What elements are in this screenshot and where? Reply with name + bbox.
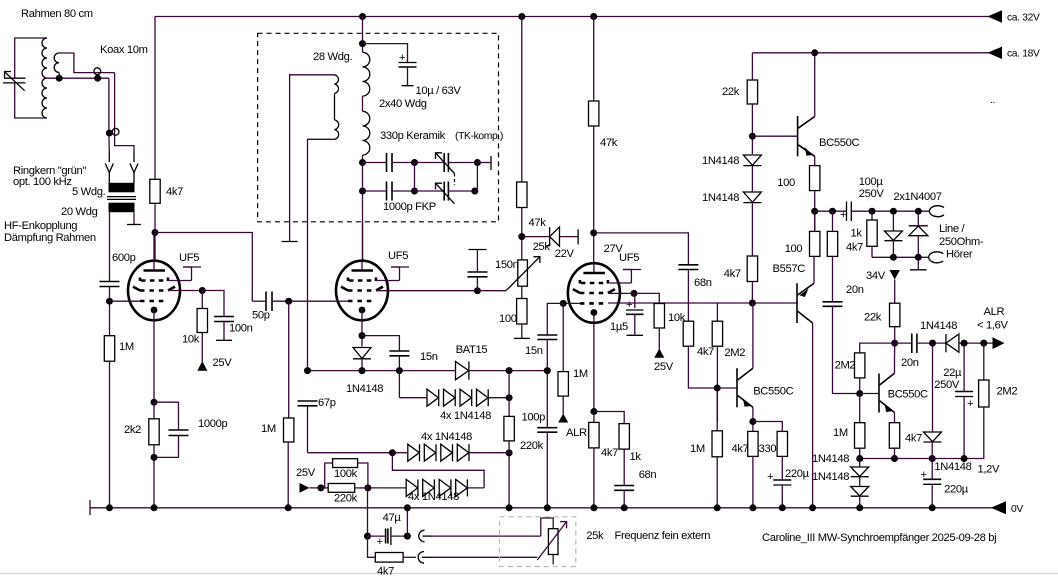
wire 47k anode tube3 [593,17,595,102]
node cathode tube3 [590,408,597,415]
svg-text:1,2V: 1,2V [978,464,1001,476]
svg-text:100n: 100n [229,323,253,335]
svg-text:100: 100 [499,313,517,325]
capacitor 15n cathode tube2 [362,336,399,351]
svg-text:4k7: 4k7 [377,566,394,578]
capacitor 20n feedback [823,302,843,307]
wire anode tube2 [362,221,364,261]
svg-text:25k: 25k [586,530,604,542]
ground stub 10u [402,85,414,87]
svg-text:1000p: 1000p [198,418,227,430]
inductor 2x40Wdg section1 [363,52,370,96]
svg-text:22k: 22k [722,86,740,98]
svg-text:Koax 10m: Koax 10m [100,44,148,56]
inductor 28Wdg feedback [335,75,339,94]
svg-text:100: 100 [777,177,795,189]
svg-text:4x 1N4148: 4x 1N4148 [408,491,459,503]
node 27V [590,229,597,236]
svg-text:Hörer: Hörer [946,249,973,261]
svg-text:22k: 22k [864,312,882,324]
svg-text:1N4148: 1N4148 [702,192,739,204]
svg-text:1M: 1M [690,443,705,455]
svg-text:Dämpfung Rahmen: Dämpfung Rahmen [4,232,96,244]
svg-text:+: + [377,536,383,548]
resistor 1k cathode branch [594,412,624,424]
svg-text:1M: 1M [573,368,588,380]
node test point 25V tube3 [654,349,664,358]
resistor 4k7 bias [747,256,757,282]
capacitor 68n cathode [614,486,634,491]
resistor 4k7 below 68n [687,270,689,322]
resistor 2M2 feedback [716,303,718,321]
svg-text:15n: 15n [525,345,543,357]
ground stub 100n [216,339,232,341]
resistor 47k anode tube3 [589,101,599,126]
svg-text:68n: 68n [694,277,712,289]
wire coax run down [108,78,110,152]
node base BC550C 1 [749,133,756,140]
wire tap to coax [44,77,109,79]
resistor 4k7 anode tube1 [150,179,160,203]
resistor 1M base Q4 [859,394,861,423]
svg-text:100µ: 100µ [859,176,884,188]
resistor 100k [321,463,333,488]
node 18V arrow [988,47,1003,59]
svg-text:47k: 47k [600,137,618,149]
svg-text:1N4148: 1N4148 [812,471,849,483]
svg-text:4k7: 4k7 [732,443,749,455]
inductor L-loop (Rahmen) [42,38,47,118]
capacitor variable (loop tuning) [3,72,26,91]
svg-text:ALR: ALR [984,306,1005,318]
svg-text:4k7: 4k7 [724,268,741,280]
svg-text:330: 330 [759,443,777,455]
svg-text:1N4148: 1N4148 [346,383,383,395]
svg-text:ca. 18V: ca. 18V [1007,49,1040,60]
node zener junction [518,233,525,240]
resistor 10k tube3 [634,293,659,303]
svg-text:UF5: UF5 [619,252,639,264]
inductor coupling coil (Koax) [54,53,59,72]
resistor 1M grid tube2 [284,418,294,442]
capacitor 67p [298,401,318,406]
svg-text:4x 1N4148: 4x 1N4148 [440,410,491,422]
node test point ALR [558,414,568,423]
svg-text:1000p FKP: 1000p FKP [383,201,436,213]
wire emitter row [860,458,964,460]
resistor 4k7 ext [368,536,376,557]
svg-text:250Ohm-: 250Ohm- [939,236,984,248]
wire 600p to grid node [109,287,111,336]
tube U1 UF5 [110,233,203,403]
capacitor 100n [214,317,234,322]
svg-text:1M: 1M [119,341,134,353]
capacitor 220u ALR [931,459,933,480]
transistor Q4 BC550C [879,373,895,412]
svg-text:220µ: 220µ [944,484,969,496]
svg-text:220k: 220k [520,440,544,452]
svg-text:100: 100 [785,243,803,255]
node coax connector pair 2 [106,130,113,137]
svg-text:ca. 32V: ca. 32V [1007,13,1040,24]
svg-text:1N4148: 1N4148 [934,461,971,473]
svg-text:4x 1N4148: 4x 1N4148 [421,431,472,443]
capacitor 100p [537,428,557,433]
tube U3 UF5 [563,263,797,422]
resistor 4k7 cathode tube3 [589,422,599,448]
node anode tube1 [152,229,159,236]
pin plugs into transformer [108,153,110,163]
svg-text:28 Wdg.: 28 Wdg. [313,51,352,63]
resistor 4k7 to 20n [832,211,834,231]
node base Q4 [856,390,863,397]
svg-text:2M2: 2M2 [724,347,745,359]
node cathode tube1 [151,399,158,406]
svg-text:10k: 10k [182,334,200,346]
node 0V arrow [991,501,1006,514]
wire gang dashed [454,174,456,186]
diode 1N4148 ALR [946,334,959,352]
resistor 22k ALR [890,303,900,327]
svg-text:2M2: 2M2 [997,386,1018,398]
svg-text:4k7: 4k7 [601,447,618,459]
plug Hoerer [929,252,944,263]
svg-text:2M2: 2M2 [835,360,856,372]
capacitor 600p [100,282,120,287]
wire screen to 100n [202,291,224,317]
capacitor 330p [363,162,387,164]
svg-text:47µ: 47µ [383,512,402,524]
capacitor 20n ALR [895,342,912,344]
svg-text:1M: 1M [833,427,848,439]
svg-text:1N4148: 1N4148 [812,453,849,465]
ground stub output [917,257,919,269]
diode 1N4148 clamp [932,343,934,432]
resistor 100 emitter Q1 [814,156,816,165]
diode 1N4148 cathode tube2 [353,348,371,359]
svg-text:1N4148: 1N4148 [920,320,957,332]
resistor 2M2 det input [687,320,689,322]
capacitor 22u ALR [963,343,965,391]
node wiper [474,287,481,294]
capacitor trimmer 2 [415,190,445,192]
diode BAT15 [456,362,469,380]
svg-text:5 Wdg.: 5 Wdg. [72,186,106,198]
svg-text:BC550C: BC550C [819,137,859,149]
terminal bar right [477,162,491,164]
node cathode tube2 [359,332,366,339]
svg-text:+: + [399,52,405,64]
svg-text:2x40 Wdg: 2x40 Wdg [379,98,427,110]
resistor 1M ALR grid [562,303,564,371]
wire 28Wdg bottom lead down [308,139,335,370]
node 32V arrow [988,10,1003,22]
svg-text:B557C: B557C [773,263,806,275]
svg-text:ALR: ALR [566,427,587,439]
node ALR output arrow [993,337,1005,349]
svg-text:2x1N4007: 2x1N4007 [893,191,941,203]
plug ext 2 [418,552,424,564]
svg-text:4k7: 4k7 [905,433,922,445]
wire 18V rail [752,52,990,54]
wire to 2M2 [860,343,895,353]
ground stub feedback coil [282,241,298,243]
plug Line output [929,206,944,217]
svg-text:1M: 1M [261,423,276,435]
potentiometer 25k ext (dashed box) [500,517,576,567]
node ALR node A [891,340,898,347]
wire 4k7 to base node [688,346,717,388]
svg-text:68n: 68n [639,469,657,481]
wire 10k to 25V marker [201,333,203,362]
wire loop frame [15,38,47,78]
transformer T1 winding 20Wdg [109,203,135,213]
node output rail [811,208,818,215]
svg-text:67p: 67p [318,397,336,409]
svg-text:0V: 0V [1011,504,1023,515]
transistor Q3 BC550C [737,368,753,407]
svg-text:25k: 25k [533,241,551,253]
node 50p / grid2 [285,298,292,305]
node emitter row Q4 [894,413,896,423]
wire base [752,135,797,137]
svg-text:220k: 220k [334,493,358,505]
diode 1N4148 bias 2 [743,192,761,203]
svg-text:330p Keramik: 330p Keramik [380,130,446,142]
svg-text:1µ5: 1µ5 [610,321,628,333]
capacitor trimmer 1 [415,162,445,164]
svg-text:15n: 15n [420,351,438,363]
wire coupling coil top [59,53,115,73]
svg-text:Frequenz fein extern: Frequenz fein extern [615,530,711,542]
diode 1N4148 bias 1 [743,155,761,166]
capacitor 100u 250V output [840,202,851,222]
ground stub 100 [514,337,530,339]
svg-text:50p: 50p [252,310,270,322]
svg-text:1k: 1k [851,228,863,240]
wire row2 to row3 [392,453,484,488]
node coax connector pair 1 [94,68,101,75]
capacitor 1000p cathode bypass [154,402,179,430]
capacitor 220u Q3 [767,471,791,485]
plug ext 1 [419,530,425,542]
node driver collector [749,300,756,307]
svg-text:22V: 22V [555,248,575,260]
svg-text:4k7: 4k7 [697,346,714,358]
wire main bus [308,370,456,372]
capacitor 68n anode [678,265,698,270]
capacitor 15n grid tube3 [560,300,567,307]
diode zener 22V [522,236,550,238]
svg-text:BAT15: BAT15 [456,344,488,356]
resistor 100 b [814,211,816,231]
potentiometer 150n [477,290,506,292]
capacitor 50p coupling [266,292,272,312]
transistor Q2 B557C [797,283,814,323]
diode row 1 (4x1N4148) [398,371,400,398]
svg-text:220µ: 220µ [785,468,810,480]
wire secondary leads [109,212,111,281]
resistor 22k base feed [747,80,757,104]
wire lower output row [872,256,928,258]
resistor 4k7 emitter Q4 [889,423,899,449]
resistor 4k7 emitter Q3 [748,431,758,456]
svg-text:600p: 600p [112,252,136,264]
svg-text:+: + [921,469,927,481]
svg-text:20n: 20n [846,284,864,296]
svg-text:1N4148: 1N4148 [702,155,739,167]
svg-text:25V: 25V [213,357,233,369]
node ext freq [404,533,411,540]
wire 32V to 4k7 [154,17,156,180]
diode row 3 (4x1N4148) [368,487,406,489]
wire coil to caps [362,155,364,261]
svg-text:25V: 25V [296,467,316,479]
resistor 220k AGC [508,371,510,417]
diode 1N4007 b [917,211,919,226]
svg-text:+: + [626,299,632,311]
capacitor stub (grid2 tube2) [469,249,487,251]
svg-text:150n: 150n [495,259,519,271]
svg-text:BC550C: BC550C [888,389,928,401]
svg-text:UF5: UF5 [179,252,199,264]
svg-text:100p: 100p [522,412,546,424]
node test point 25V agc [300,483,310,493]
svg-text:20n: 20n [901,357,919,369]
wire 32V rail [155,16,990,18]
svg-text:opt. 100 kHz: opt. 100 kHz [13,176,72,188]
inductor 2x40Wdg section2 [363,111,370,155]
diode row 2 (4x1N4148) [308,452,408,454]
capacitor 1000p FKP [363,190,387,192]
resistor 2M2 ALR [855,353,865,378]
resistor 330 emitter Q3 [753,422,782,432]
svg-text:Caroline_III MW-Synchroempfäng: Caroline_III MW-Synchroempfänger 2025-09… [762,532,996,544]
resistor 2M2 ALR out [983,343,985,380]
svg-text:(TK-komp.): (TK-komp.) [455,131,503,142]
node test point 25V [197,361,207,371]
svg-text:4k7: 4k7 [846,242,863,254]
node base Q3 [714,385,721,392]
svg-text:47k: 47k [529,217,547,229]
wire 4k7 to anode node [154,203,156,262]
resistor 1k output [871,211,873,220]
resistor 220k parallel [321,487,328,489]
svg-text:HF-Enkopplung: HF-Enkopplung [4,220,77,232]
SECTION: oscillator dashed box [258,33,499,222]
ground stub [127,224,141,226]
svg-text:100k: 100k [334,468,358,480]
wire trimmer join verticals [414,163,416,192]
wire 0V bus [90,507,993,509]
svg-text:250V: 250V [859,188,885,200]
diode 1N4148 thresh b [859,477,861,487]
diode 1N4148 thresh a [859,459,861,468]
resistor 10k screen [197,309,207,333]
resistor 1M grid tube1 [104,336,114,362]
svg-text:+: + [840,209,846,221]
svg-text:+: + [767,471,773,483]
wire 28Wdg top lead to ground [290,75,335,242]
wire anode node to 50p [155,233,252,302]
wire freq node down [367,488,369,536]
svg-text:4k7: 4k7 [166,186,183,198]
svg-text:UF5: UF5 [388,250,408,262]
node emitter Q3 [752,407,754,431]
svg-text:10µ / 63V: 10µ / 63V [416,85,462,97]
svg-text:Line /: Line / [939,223,966,235]
resistor 1M base Q3 [716,388,718,431]
svg-text:Rahmen 80 cm: Rahmen 80 cm [21,8,93,20]
svg-text:250V: 250V [934,379,960,391]
node test point 34V [890,270,900,280]
svg-text:..: .. [990,95,995,106]
transformer T1 winding 5Wdg [109,183,135,193]
capacitor 10u/63V electrolytic [363,44,408,62]
svg-text:< 1,6V: < 1,6V [977,320,1008,332]
transistor Q1 BC550C [798,116,815,156]
svg-text:25V: 25V [654,361,674,373]
wire osc main line top [362,17,364,53]
transformer core [107,196,136,198]
svg-text:22µ: 22µ [943,367,962,379]
tube U2 UF5 [336,261,477,347]
svg-text:+: + [967,398,973,410]
wire anode node to 68n [594,233,689,265]
capacitor 47u [377,527,391,548]
svg-text:BC550C: BC550C [753,386,793,398]
svg-text:34V: 34V [866,270,886,282]
resistor 47k [517,182,527,208]
decorative bottom edge [0,573,1058,575]
svg-text:2k2: 2k2 [124,424,141,436]
diode 1N4007 a [892,211,894,231]
node tube1 g2 [199,287,206,294]
node dots on 32V rail [359,13,366,20]
svg-text:20 Wdg: 20 Wdg [61,206,98,218]
svg-text:1k: 1k [630,451,642,463]
resistor 2k2 cathode [149,419,159,445]
resistor 100 below pot [521,286,523,298]
wire 47k column to pot [521,17,523,183]
capacitor 1u5 [631,290,638,297]
